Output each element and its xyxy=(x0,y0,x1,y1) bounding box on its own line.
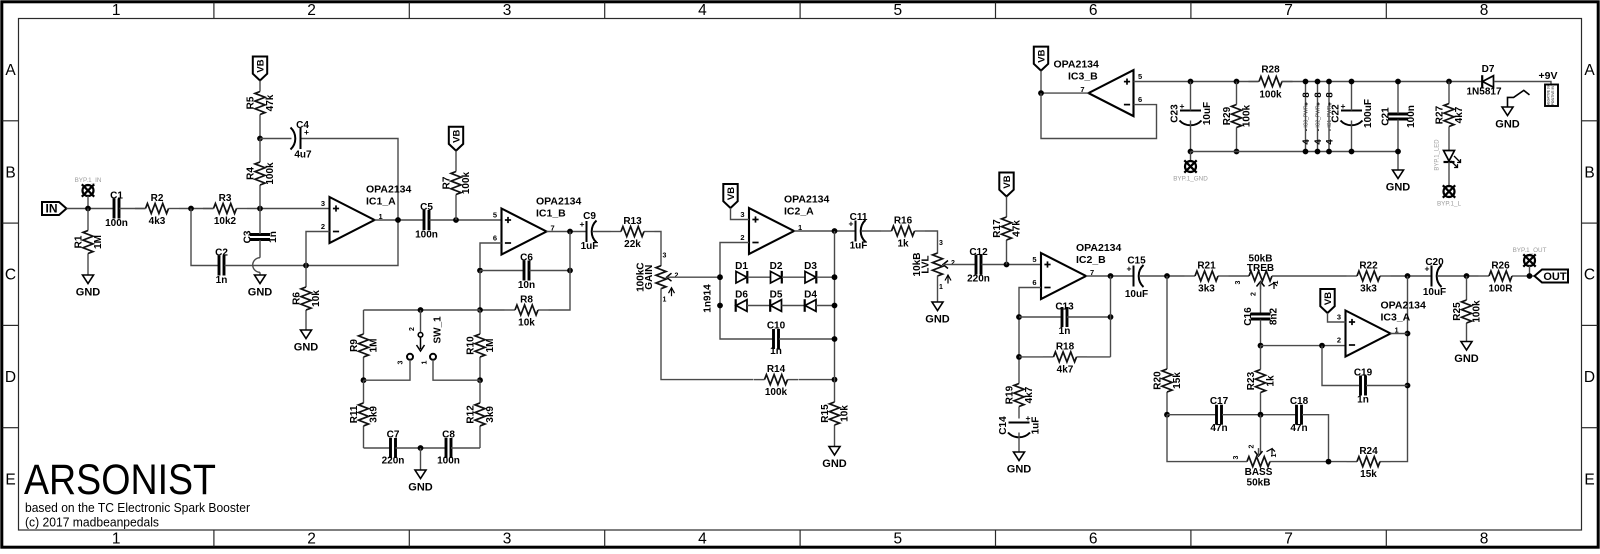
svg-text:VB: VB xyxy=(1002,175,1013,188)
svg-text:220n: 220n xyxy=(967,274,990,285)
junction xyxy=(257,206,263,212)
diode D7 xyxy=(1482,75,1493,88)
svg-text:6: 6 xyxy=(1089,531,1098,548)
junction xyxy=(477,307,483,313)
svg-text:BYP.1_IN: BYP.1_IN xyxy=(75,177,102,184)
svg-text:GND: GND xyxy=(408,482,433,494)
svg-text:1k: 1k xyxy=(1266,375,1277,387)
svg-text:D6: D6 xyxy=(735,289,748,300)
wire xyxy=(306,232,330,266)
svg-text:100R: 100R xyxy=(1489,284,1514,295)
svg-text:4: 4 xyxy=(698,2,707,19)
svg-text:B: B xyxy=(1584,164,1594,181)
capacitor C12 xyxy=(967,247,990,285)
port IN xyxy=(42,201,67,215)
svg-text:C3: C3 xyxy=(243,230,254,243)
svg-text:R9: R9 xyxy=(349,339,360,352)
wire xyxy=(364,309,481,311)
wire xyxy=(1322,346,1360,386)
junction xyxy=(832,303,838,309)
svg-text:3: 3 xyxy=(503,531,512,548)
capacitor C14 xyxy=(998,413,1042,437)
wire xyxy=(1018,433,1020,453)
svg-text:2: 2 xyxy=(740,233,744,242)
wire xyxy=(375,219,424,221)
svg-text:3k9: 3k9 xyxy=(369,406,380,423)
svg-text:8: 8 xyxy=(1325,92,1336,97)
capacitor C1 xyxy=(105,190,128,229)
resistor R11 xyxy=(349,380,380,448)
resistor R25 xyxy=(1452,276,1483,342)
ground (C14) xyxy=(1007,452,1032,476)
svg-text:100k: 100k xyxy=(1472,300,1483,323)
junction xyxy=(717,274,723,280)
svg-text:IC1_B: IC1_B xyxy=(536,208,566,220)
svg-text:GND: GND xyxy=(1495,119,1520,131)
wire xyxy=(364,447,391,449)
resistor R15 xyxy=(820,402,851,447)
svg-text:10k: 10k xyxy=(518,318,535,329)
svg-text:10uF: 10uF xyxy=(1125,289,1148,300)
svg-text:R12: R12 xyxy=(466,405,477,424)
svg-text:GND: GND xyxy=(822,458,847,470)
wire xyxy=(661,288,754,379)
svg-text:1M: 1M xyxy=(369,339,380,353)
wire xyxy=(655,232,662,267)
wire xyxy=(1167,415,1247,462)
svg-text:100k: 100k xyxy=(1242,104,1253,127)
svg-text:8: 8 xyxy=(1313,92,1324,97)
label +9V xyxy=(1539,70,1558,82)
svg-text:GND: GND xyxy=(294,342,319,354)
resistor R23 xyxy=(1246,346,1277,415)
junction xyxy=(1164,412,1170,418)
capacitor C2 xyxy=(215,247,228,286)
VB power flag (R7) xyxy=(449,127,463,151)
junction xyxy=(1446,79,1452,85)
wire xyxy=(1328,313,1346,322)
resistor R7 xyxy=(442,151,473,220)
op-amp IC3_B labels xyxy=(1054,59,1099,83)
svg-text:GND: GND xyxy=(1454,353,1479,365)
svg-text:IC2_B: IC2_B xyxy=(1076,254,1106,266)
svg-text:OPA2134: OPA2134 xyxy=(1076,242,1121,254)
svg-text:R26: R26 xyxy=(1491,261,1510,272)
svg-text:R13: R13 xyxy=(623,216,642,227)
capacitor C19 xyxy=(1354,368,1373,406)
capacitor C13 xyxy=(1055,302,1074,338)
svg-text:6: 6 xyxy=(1032,278,1036,287)
wire xyxy=(1067,316,1111,318)
svg-text:R6: R6 xyxy=(292,292,303,305)
svg-text:IN: IN xyxy=(46,201,58,215)
svg-text:1n914: 1n914 xyxy=(703,284,714,313)
svg-text:OPA2134: OPA2134 xyxy=(366,184,411,196)
junction xyxy=(361,377,367,383)
svg-text:4: 4 xyxy=(1325,139,1336,145)
wire xyxy=(302,139,399,221)
wire xyxy=(247,208,330,210)
capacitor C15 xyxy=(1125,256,1148,301)
junction xyxy=(418,445,424,451)
svg-text:3: 3 xyxy=(321,199,325,208)
svg-text:E: E xyxy=(1584,471,1594,488)
svg-text:100k: 100k xyxy=(765,387,788,398)
svg-text:R24: R24 xyxy=(1359,446,1378,457)
svg-text:8: 8 xyxy=(1480,531,1489,548)
op-amp IC3_B xyxy=(1080,70,1142,116)
resistor R6 xyxy=(292,266,323,331)
svg-text:C12: C12 xyxy=(969,247,988,258)
resistor R29 xyxy=(1222,82,1253,152)
svg-text:1uF: 1uF xyxy=(581,241,599,252)
VB power flag (IC2_A) xyxy=(723,184,737,208)
svg-text:SW_1: SW_1 xyxy=(433,316,444,344)
junction xyxy=(1405,273,1411,279)
resistor R4 xyxy=(246,139,277,209)
svg-text:100n: 100n xyxy=(105,218,128,229)
svg-text:5: 5 xyxy=(893,531,902,548)
capacitor C10 xyxy=(767,321,786,358)
svg-text:1: 1 xyxy=(939,284,943,291)
wire xyxy=(1190,82,1192,111)
wire xyxy=(1134,81,1259,83)
svg-text:3: 3 xyxy=(740,210,744,219)
wire xyxy=(1110,276,1112,357)
svg-text:100k: 100k xyxy=(265,162,276,185)
wire xyxy=(1040,71,1042,94)
svg-text:3: 3 xyxy=(398,360,405,364)
capacitor C18 xyxy=(1290,396,1309,434)
svg-text:1: 1 xyxy=(422,360,429,364)
resistor R17 xyxy=(992,197,1023,265)
junction xyxy=(1164,273,1170,279)
wire xyxy=(1302,415,1329,462)
resistor R9 xyxy=(349,310,380,380)
svg-text:1k: 1k xyxy=(897,239,909,250)
wire xyxy=(480,243,502,268)
capacitor C8 xyxy=(437,430,460,467)
svg-text:1n: 1n xyxy=(216,275,228,286)
svg-text:C17: C17 xyxy=(1210,396,1229,407)
VB power flag (R5) xyxy=(253,57,267,81)
wire xyxy=(782,276,805,278)
junction xyxy=(1405,331,1411,337)
potentiometer BASS (BASS 50kB) xyxy=(1233,445,1278,489)
wire xyxy=(937,276,939,302)
svg-text:D: D xyxy=(1584,369,1595,386)
resistor R20 xyxy=(1153,276,1184,415)
svg-text:6: 6 xyxy=(493,234,497,243)
wire xyxy=(1222,414,1296,416)
svg-text:D4: D4 xyxy=(804,289,817,300)
svg-text:R19: R19 xyxy=(1005,385,1016,404)
svg-text:R15: R15 xyxy=(820,404,831,423)
svg-text:4k3: 4k3 xyxy=(149,216,166,227)
wire xyxy=(816,305,835,307)
svg-text:C15: C15 xyxy=(1127,256,1146,267)
svg-text:1uF: 1uF xyxy=(1031,417,1042,435)
junction xyxy=(1303,79,1309,85)
svg-text:C11: C11 xyxy=(850,212,868,223)
capacitor C23 xyxy=(1170,101,1214,125)
svg-text:1M: 1M xyxy=(485,339,496,353)
svg-text:10uF: 10uF xyxy=(1423,287,1446,298)
svg-text:-: - xyxy=(1327,129,1334,131)
svg-text:BYP.1_L: BYP.1_L xyxy=(1437,201,1462,208)
wire with hop over C2 line xyxy=(253,240,260,276)
svg-text:A: A xyxy=(1584,62,1595,79)
op-amp IC1_A xyxy=(321,184,412,244)
svg-text:1n: 1n xyxy=(1357,395,1369,406)
diode D2 xyxy=(770,261,783,284)
svg-text:C21: C21 xyxy=(1381,107,1392,126)
svg-text:E: E xyxy=(5,471,15,488)
wire xyxy=(1366,385,1408,387)
junction xyxy=(1016,354,1022,360)
svg-text:4k7: 4k7 xyxy=(1454,106,1465,123)
wire xyxy=(1270,461,1347,463)
svg-text:+9V: +9V xyxy=(1539,70,1558,82)
svg-text:C16: C16 xyxy=(1243,307,1254,326)
svg-text:1n: 1n xyxy=(268,231,279,243)
wire xyxy=(1167,414,1216,416)
resistor R8 xyxy=(505,295,549,329)
svg-text:C19: C19 xyxy=(1354,368,1373,379)
svg-text:3: 3 xyxy=(503,2,512,19)
power pins IC2_PWR xyxy=(1313,82,1324,152)
resistor R5 xyxy=(246,81,277,139)
junction xyxy=(1258,343,1264,349)
svg-text:2: 2 xyxy=(1249,445,1256,449)
junction xyxy=(1349,149,1355,155)
wire xyxy=(593,231,611,233)
svg-text:8: 8 xyxy=(1480,2,1489,19)
resistor R26 xyxy=(1479,261,1523,295)
wire xyxy=(1260,283,1262,314)
svg-text:100k: 100k xyxy=(461,171,472,194)
wire xyxy=(1190,121,1192,152)
wire xyxy=(420,448,422,470)
capacitor C17 xyxy=(1210,396,1229,434)
wire xyxy=(1019,316,1062,318)
svg-text:47n: 47n xyxy=(1290,423,1307,434)
wire xyxy=(1086,275,1133,277)
junction xyxy=(477,377,483,383)
svg-text:VB: VB xyxy=(1323,292,1334,305)
svg-text:R16: R16 xyxy=(894,216,913,227)
wire xyxy=(480,309,505,311)
wire xyxy=(951,264,976,266)
wire xyxy=(779,338,835,340)
svg-text:ARSONIST: ARSONIST xyxy=(24,456,216,504)
wire xyxy=(259,209,261,235)
svg-text:C13: C13 xyxy=(1055,302,1074,313)
svg-text:4k7: 4k7 xyxy=(1024,386,1035,403)
wire xyxy=(1351,82,1353,111)
svg-text:47n: 47n xyxy=(1210,423,1227,434)
svg-text:BASS: BASS xyxy=(1245,467,1273,478)
svg-text:C8: C8 xyxy=(442,430,455,441)
wire xyxy=(1041,93,1157,138)
svg-text:C18: C18 xyxy=(1290,396,1309,407)
svg-text:based on the TC Electronic Spa: based on the TC Electronic Spark Booster xyxy=(25,500,251,515)
svg-text:VB: VB xyxy=(452,129,463,142)
wire xyxy=(1391,333,1408,335)
junction xyxy=(1405,383,1411,389)
svg-text:R5: R5 xyxy=(246,96,257,109)
svg-text:C: C xyxy=(5,267,16,284)
capacitor C20 xyxy=(1423,257,1446,298)
svg-text:R28: R28 xyxy=(1261,65,1280,76)
svg-text:OPA2134: OPA2134 xyxy=(1054,59,1099,71)
resistor R19 xyxy=(1005,384,1036,419)
ground (DC jack) xyxy=(1495,107,1520,131)
svg-text:R18: R18 xyxy=(1056,341,1075,352)
svg-text:2: 2 xyxy=(321,222,325,231)
wire xyxy=(191,209,219,266)
svg-text:C14: C14 xyxy=(998,416,1009,435)
title ARSONIST xyxy=(24,456,216,504)
svg-text:15k: 15k xyxy=(1360,469,1377,480)
svg-text:C4: C4 xyxy=(296,120,309,131)
wire xyxy=(1494,82,1551,85)
svg-text:100n: 100n xyxy=(415,229,438,240)
wire xyxy=(1448,162,1450,186)
wire xyxy=(364,360,411,380)
resistor R28 xyxy=(1249,65,1293,101)
svg-text:BYP.1_LED: BYP.1_LED xyxy=(1435,139,1441,171)
diode D1 xyxy=(735,261,748,284)
junction xyxy=(1315,79,1321,85)
svg-text:47k: 47k xyxy=(1012,220,1023,237)
VB power flag (IC3_B) xyxy=(1034,47,1048,71)
svg-text:C1: C1 xyxy=(110,190,123,201)
junction xyxy=(1315,149,1321,155)
junction xyxy=(832,336,838,342)
svg-text:3k3: 3k3 xyxy=(1198,284,1215,295)
svg-text:4u7: 4u7 xyxy=(294,150,312,161)
svg-text:1n: 1n xyxy=(770,346,782,357)
svg-text:1: 1 xyxy=(112,2,121,19)
wire (ground rail) xyxy=(1191,151,1399,153)
wire (+9V rail) xyxy=(1282,81,1482,83)
svg-text:8n2: 8n2 xyxy=(1269,307,1280,325)
svg-text:-: - xyxy=(1304,129,1311,131)
potentiometer GAIN (GAIN 100kC) xyxy=(636,253,679,304)
wire xyxy=(817,276,835,278)
svg-text:5: 5 xyxy=(1032,255,1036,264)
capacitor C16 xyxy=(1243,307,1280,326)
svg-text:100n: 100n xyxy=(437,456,460,467)
wire xyxy=(1041,92,1089,94)
resistor R22 xyxy=(1347,261,1391,295)
svg-text:R14: R14 xyxy=(767,364,786,375)
svg-text:4: 4 xyxy=(698,531,707,548)
svg-text:-: - xyxy=(1316,129,1323,131)
junction xyxy=(1016,314,1022,320)
svg-text:C23: C23 xyxy=(1170,104,1181,123)
svg-text:22k: 22k xyxy=(624,239,641,250)
svg-text:R7: R7 xyxy=(442,176,453,189)
resistor R27 xyxy=(1435,82,1466,149)
svg-text:15k: 15k xyxy=(1172,372,1183,389)
svg-text:R29: R29 xyxy=(1222,106,1233,125)
svg-text:VB: VB xyxy=(726,187,737,200)
wire xyxy=(1438,275,1479,277)
junction xyxy=(567,229,573,235)
svg-text:GND: GND xyxy=(248,287,273,299)
svg-text:C7: C7 xyxy=(387,430,400,441)
wire xyxy=(1397,82,1399,114)
wire xyxy=(549,232,571,311)
svg-text:C: C xyxy=(1584,267,1595,284)
resistor R18 xyxy=(1043,341,1087,375)
svg-text:+: + xyxy=(1304,102,1311,106)
svg-text:5: 5 xyxy=(1138,72,1142,81)
DC jack symbol xyxy=(1508,90,1530,107)
label 1n914 xyxy=(703,284,714,313)
svg-text:10k: 10k xyxy=(311,290,322,307)
wire xyxy=(1523,275,1535,277)
junction xyxy=(303,263,309,269)
diode D6 xyxy=(735,289,748,312)
pad BYP.1_GND xyxy=(1173,160,1208,182)
junction xyxy=(453,217,459,223)
resistor R16 xyxy=(881,216,925,250)
capacitor C3 xyxy=(243,230,280,243)
svg-text:POSITIVE 9V: POSITIVE 9V xyxy=(1551,85,1555,105)
junction xyxy=(1319,343,1325,349)
svg-text:10n: 10n xyxy=(518,280,535,291)
potentiometer TREB (50kB TREB) xyxy=(1235,254,1280,296)
LED BYP.1_LED xyxy=(1435,139,1461,171)
wire xyxy=(547,231,587,233)
svg-text:OPA2134: OPA2134 xyxy=(536,196,581,208)
svg-text:R20: R20 xyxy=(1153,371,1164,390)
junction xyxy=(1004,262,1010,268)
junction xyxy=(832,377,838,383)
svg-text:C5: C5 xyxy=(420,202,433,213)
svg-text:100n: 100n xyxy=(1406,105,1417,128)
capacitor C7 xyxy=(382,430,405,467)
svg-text:OPA2134: OPA2134 xyxy=(1381,300,1426,312)
wire xyxy=(675,276,721,278)
wire xyxy=(67,208,114,210)
svg-text:R2: R2 xyxy=(151,193,164,204)
svg-text:6: 6 xyxy=(1089,2,1098,19)
svg-text:7: 7 xyxy=(1284,531,1293,548)
svg-text:1uF: 1uF xyxy=(850,241,868,252)
wire xyxy=(1351,121,1353,152)
ground (C7 C8) xyxy=(408,470,433,494)
svg-text:100uF: 100uF xyxy=(1363,99,1374,128)
svg-text:10k2: 10k2 xyxy=(214,216,237,227)
svg-text:D3: D3 xyxy=(804,261,817,272)
svg-text:6: 6 xyxy=(1138,95,1142,104)
wire xyxy=(1190,152,1192,162)
svg-text:R4: R4 xyxy=(246,167,257,180)
pad BYP.1_L xyxy=(1437,185,1462,207)
svg-text:VB: VB xyxy=(256,59,267,72)
junction xyxy=(832,228,838,234)
svg-text:C22: C22 xyxy=(1331,104,1342,123)
svg-text:2: 2 xyxy=(951,260,955,267)
wire xyxy=(1529,266,1531,276)
wire xyxy=(87,196,89,209)
resistor R13 xyxy=(611,216,655,250)
svg-text:4: 4 xyxy=(1301,139,1312,145)
